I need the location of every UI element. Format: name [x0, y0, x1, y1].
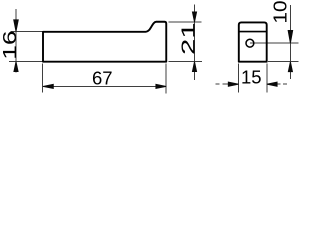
extension line 15-dim right [266, 64, 268, 93]
part outline side view [43, 22, 166, 62]
dimension line 15 right segment [267, 83, 281, 85]
arrowhead 67-dim right (right) [156, 84, 166, 88]
dimension line 15 left segment dash [215, 83, 219, 85]
arrowhead 67-dim left (left) [43, 84, 53, 88]
extension line 16-dim top [11, 31, 44, 33]
extension line 16-dim bottom [9, 61, 43, 63]
extension line 21-dim top [168, 21, 201, 23]
svg-text:15: 15 [241, 67, 262, 88]
hole circle [246, 39, 254, 47]
dimension line 21 [194, 4, 196, 80]
extension line 67-dim right [165, 63, 167, 93]
svg-text:21: 21 [178, 22, 198, 55]
extension line hole centerline [250, 42, 299, 44]
arrowhead 15-dim right (left) [267, 82, 277, 86]
dimension line 16 [15, 9, 17, 72]
arrowhead 16-dim top (down) [14, 20, 19, 32]
arrowhead 21-dim top (down) [192, 12, 196, 22]
arrowhead 16-dim bottom (up) [14, 62, 18, 72]
svg-text:67: 67 [92, 67, 113, 88]
step edge end view [239, 31, 267, 33]
arrowhead 10-dim bottom (up) [288, 62, 292, 72]
dimension line 10 [289, 5, 291, 79]
svg-text:16: 16 [0, 30, 20, 59]
svg-text:10: 10 [271, 0, 292, 23]
extension line 21-dim bottom [168, 61, 202, 63]
dimension line 15 right segment dash [283, 83, 287, 85]
part outline end view [239, 22, 267, 61]
arrowhead 15-dim left (right) [228, 82, 238, 86]
arrowhead 21-dim bottom (up) [192, 62, 196, 72]
dimension line 67 [43, 85, 166, 87]
arrowhead 10-dim top (down) [288, 31, 293, 44]
extension line 15-dim left [238, 64, 240, 93]
extension line 67-dim left [42, 63, 44, 92]
dimension line 15 left segment [223, 83, 239, 85]
extension line 10-dim bottom [268, 61, 299, 63]
